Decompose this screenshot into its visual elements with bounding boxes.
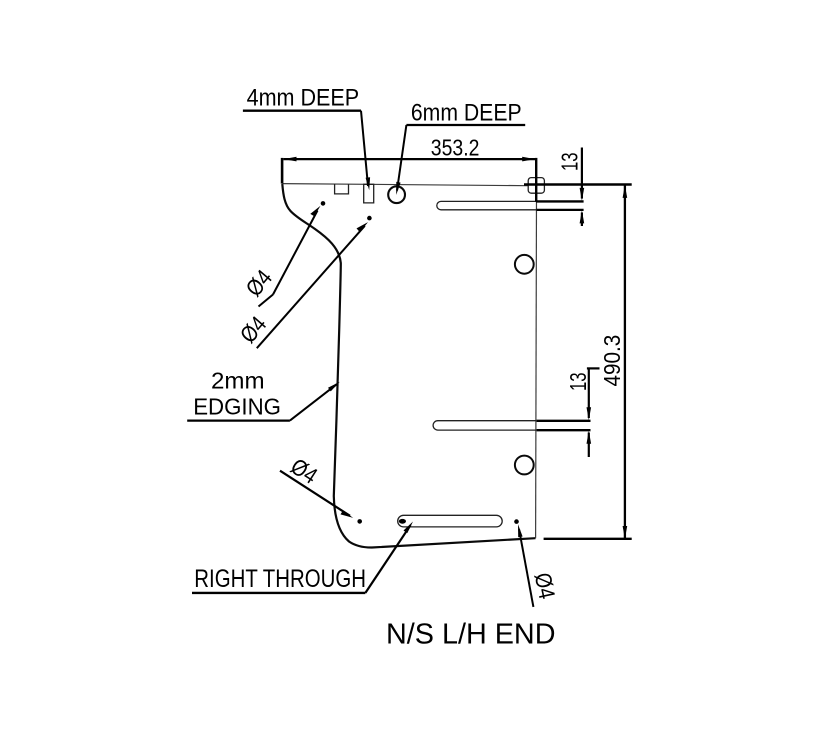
arrow dia4 lower-left	[341, 511, 354, 518]
arrow 13 top lower	[580, 210, 585, 223]
arrow 353.2 right	[522, 157, 535, 162]
arrow RIGHT THROUGH	[404, 522, 414, 534]
arrow 353.2 left	[284, 157, 297, 162]
dimension 490.3 top extension	[524, 183, 632, 185]
dimension 13 middle: top bar	[587, 367, 600, 369]
svg-text:490.3: 490.3	[599, 335, 625, 387]
svg-text:Ø4: Ø4	[286, 453, 322, 489]
svg-text:N/S L/H END: N/S L/H END	[386, 619, 556, 651]
dimension 490.3 line	[624, 185, 626, 539]
top-right tab	[528, 178, 544, 194]
6mm deep hole circle	[388, 186, 405, 203]
svg-text:6mm DEEP: 6mm DEEP	[411, 99, 522, 126]
arrow 13 middle upper	[587, 407, 592, 420]
dimension 353.2 right extension	[535, 158, 537, 202]
dimension 13 top: extensions	[536, 200, 583, 202]
hole dot upper-left	[321, 201, 326, 206]
svg-text:EDGING: EDGING	[193, 394, 281, 420]
leader 4mm DEEP underline	[243, 110, 361, 112]
middle slot	[433, 421, 536, 430]
dimension 490.3 bottom extension	[544, 538, 632, 540]
leader dia4 upper1 underline	[259, 295, 274, 307]
hole dot in slot end	[399, 519, 406, 524]
arrow 13 top upper	[580, 188, 585, 201]
leader 2mm EDGING underline	[187, 419, 290, 421]
leader 6mm DEEP shaft	[397, 125, 406, 191]
panel outline left curved edge and bottom (thick)	[282, 184, 535, 548]
arrow dia4 upper1	[310, 206, 320, 217]
svg-text:Ø4: Ø4	[235, 311, 272, 348]
arrow 490.3 bottom	[623, 526, 628, 539]
leader dia4 lower-left shaft	[280, 471, 350, 516]
svg-text:Ø4: Ø4	[530, 570, 561, 601]
arrow dia4 upper2	[357, 222, 369, 232]
arrow 2mm EDGING	[328, 382, 340, 392]
hole dot upper-mid	[367, 216, 372, 221]
hole dot bottom-right	[514, 519, 519, 524]
svg-text:353.2: 353.2	[431, 134, 480, 160]
svg-text:2mm: 2mm	[211, 368, 265, 394]
svg-text:4mm DEEP: 4mm DEEP	[247, 85, 360, 112]
leader dia4 upper1 shaft	[273, 211, 318, 295]
bottom slot right through	[398, 515, 503, 527]
leader RIGHT THROUGH shaft	[365, 525, 410, 593]
dimension 13 top: dim line above	[581, 148, 583, 199]
arrow 4mm DEEP	[366, 177, 371, 190]
dimension 13 middle: dim line below	[588, 433, 590, 458]
leader dia4 lower-right shaft	[519, 529, 533, 607]
panel right edge (thin)	[535, 193, 538, 538]
dimension 13 middle: dim line above	[588, 368, 590, 418]
dimension 353.2 line	[284, 158, 536, 160]
svg-text:13: 13	[557, 152, 583, 171]
arrow dia4 lower-right	[518, 524, 523, 537]
upper slot	[437, 201, 537, 209]
hole dot bottom-left	[357, 519, 362, 524]
svg-text:13: 13	[565, 372, 591, 391]
arrow 13 middle lower	[587, 431, 592, 444]
leader 2mm EDGING shaft	[290, 384, 337, 420]
arrow 6mm DEEP	[396, 182, 400, 195]
leader RIGHT THROUGH underline	[192, 592, 365, 594]
leader 6mm DEEP underline	[406, 124, 525, 126]
hole circle upper right	[515, 255, 534, 274]
dimension 13 top: dim line below	[581, 213, 583, 227]
top notch	[335, 184, 349, 194]
panel top edge (thin)	[282, 184, 527, 186]
hole circle lower right	[515, 456, 534, 475]
dimension 13 middle: extensions	[537, 420, 591, 422]
4mm deep pocket rectangle	[364, 184, 374, 203]
leader 4mm DEEP shaft	[361, 111, 368, 186]
leader dia4 upper2 shaft	[257, 226, 365, 348]
svg-text:RIGHT THROUGH: RIGHT THROUGH	[194, 565, 366, 593]
arrow 490.3 top	[623, 185, 628, 198]
dimension 353.2 left extension	[281, 158, 284, 184]
